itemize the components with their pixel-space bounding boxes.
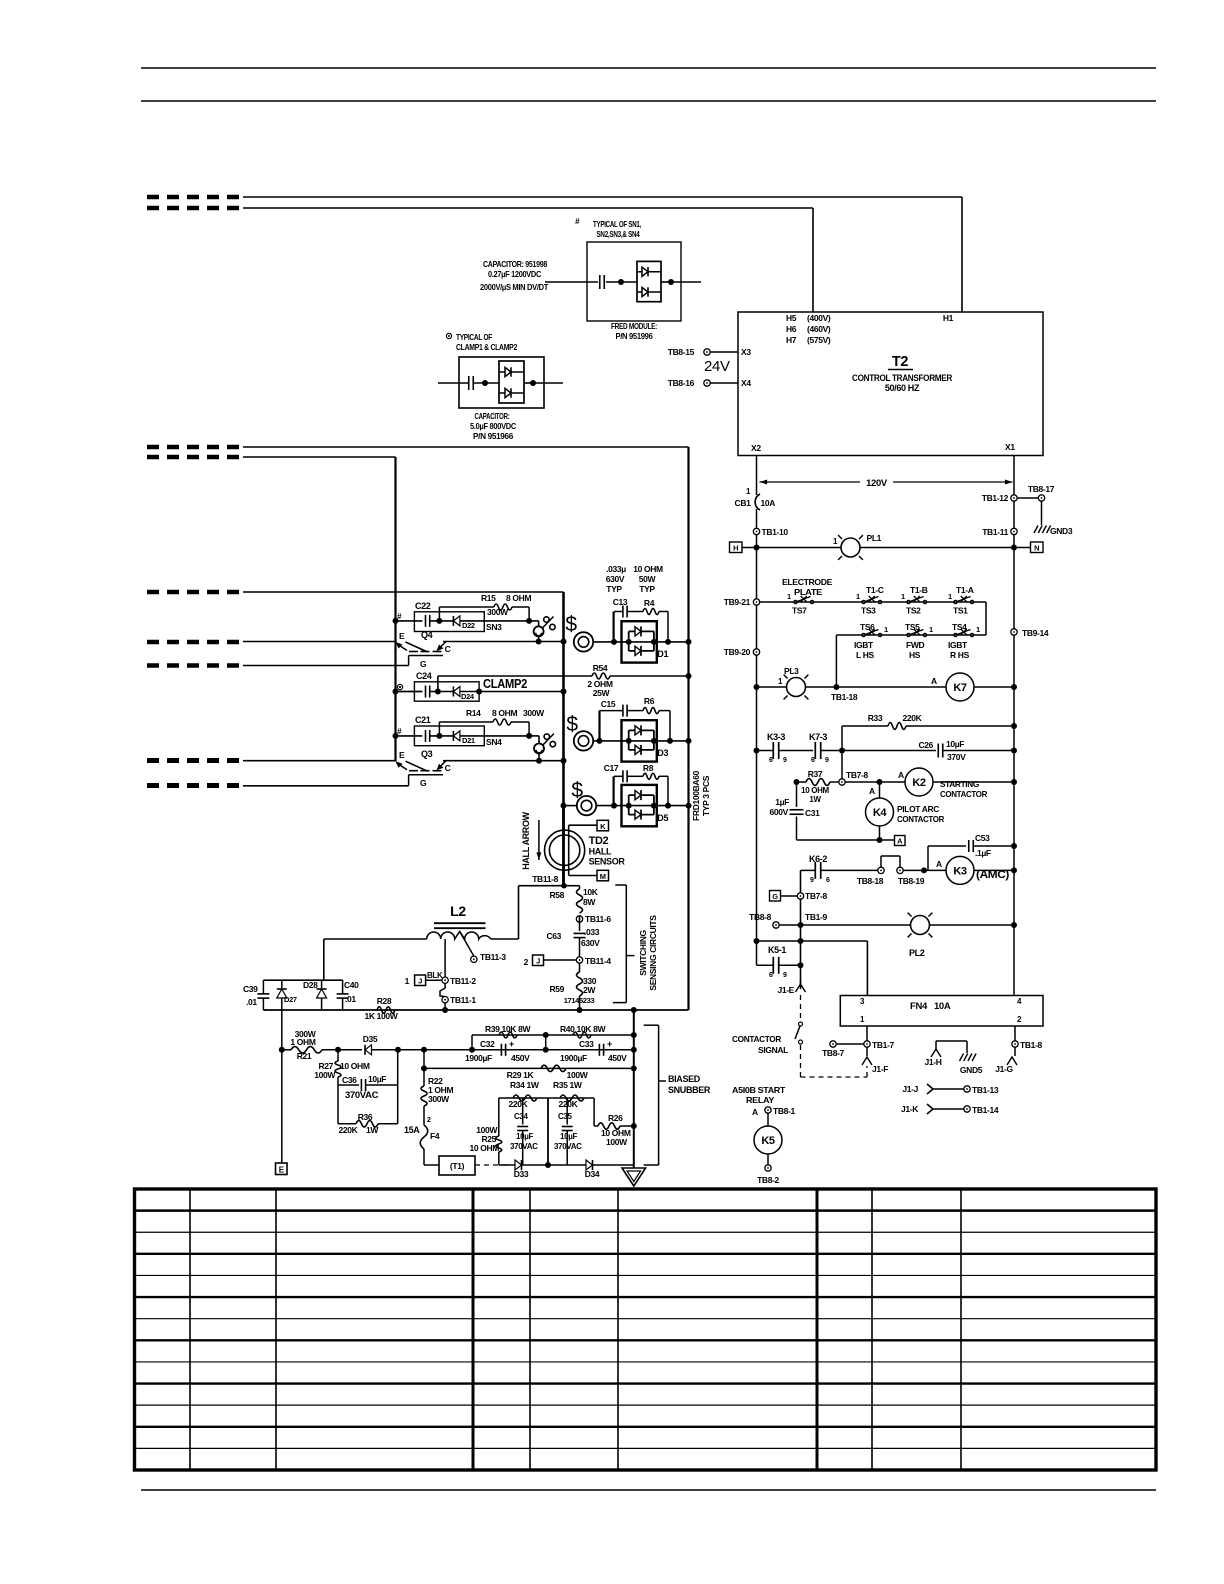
- wire lead9 run: [243, 785, 409, 787]
- switch contact signal: [799, 1022, 803, 1026]
- parts table outer frame: [135, 1189, 1157, 1470]
- svg-text:C63: C63: [546, 931, 561, 941]
- wire bus to CT3: [564, 805, 577, 807]
- wire TB11-1 to bus: [444, 1003, 446, 1010]
- svg-text:600V: 600V: [770, 807, 789, 817]
- wire TB8-8 row: [779, 924, 911, 926]
- svg-text:FN4: FN4: [910, 1001, 928, 1012]
- svg-text:FRED MODULE:: FRED MODULE:: [611, 321, 657, 331]
- terminal TB9-14: [1011, 629, 1017, 635]
- svg-text:2W: 2W: [583, 985, 596, 995]
- wire lead6 run: [243, 641, 396, 643]
- wire dashed lead 3 (to diode bus): [147, 445, 245, 450]
- svg-text:SNUBBER: SNUBBER: [668, 1085, 711, 1095]
- svg-text:24V: 24V: [704, 358, 730, 375]
- ground main: [622, 1168, 646, 1186]
- svg-text:TB8-15: TB8-15: [668, 347, 695, 357]
- wire bus right diode column: [687, 447, 689, 1010]
- svg-text:1K 100W: 1K 100W: [365, 1011, 399, 1021]
- svg-text:CONTACTOR: CONTACTOR: [940, 789, 987, 799]
- wire K4 leads: [879, 782, 881, 798]
- wire dashed lead 6 (Q4 emitter): [147, 640, 245, 645]
- svg-text:TYP: TYP: [606, 584, 622, 594]
- svg-text:$: $: [566, 713, 578, 736]
- svg-text:9: 9: [810, 877, 814, 884]
- wire lead2 run: [243, 207, 813, 209]
- svg-text:C53: C53: [975, 833, 990, 843]
- diode D21: [452, 731, 454, 741]
- wire H row: [742, 547, 841, 549]
- wire C21 out: [460, 735, 529, 737]
- svg-text:450V: 450V: [511, 1053, 530, 1063]
- wire C31 branch top: [796, 782, 798, 807]
- svg-text:TB11-1: TB11-1: [450, 995, 476, 1005]
- svg-text:630V: 630V: [606, 574, 625, 584]
- wire lead3 run: [243, 446, 689, 448]
- svg-text:10 OHM: 10 OHM: [469, 1143, 499, 1153]
- transistor Q4 gate: [409, 655, 443, 657]
- svg-text:1 OHM: 1 OHM: [290, 1037, 315, 1047]
- svg-text:HS: HS: [909, 650, 921, 660]
- svg-text:TB11-4: TB11-4: [585, 956, 611, 966]
- diode module D1: [622, 621, 657, 662]
- svg-text:R28: R28: [377, 996, 392, 1006]
- svg-text:IGBT: IGBT: [854, 640, 874, 650]
- wire lead1 drop to H1: [961, 197, 963, 312]
- svg-text:(400V): (400V): [807, 313, 831, 323]
- diode fred bottom: [637, 291, 661, 293]
- resistor R15 loop: [438, 607, 440, 621]
- current transformer CT2: [574, 731, 593, 750]
- wire TB11-8 to R58: [564, 885, 580, 887]
- svg-text:R35 1W: R35 1W: [553, 1080, 583, 1090]
- svg-text:1: 1: [929, 625, 933, 634]
- hall arrow: [538, 820, 540, 860]
- svg-text:2: 2: [524, 957, 529, 967]
- svg-text:370V: 370V: [947, 752, 966, 762]
- svg-text:.033µ: .033µ: [606, 564, 626, 574]
- wire C63-TB11-4: [579, 938, 581, 957]
- svg-text:C33: C33: [579, 1039, 594, 1049]
- svg-text:J1-F: J1-F: [872, 1064, 888, 1074]
- svg-text:C17: C17: [604, 763, 619, 773]
- ground GND3: [1034, 526, 1038, 534]
- svg-text:6: 6: [811, 757, 815, 764]
- FRED module box: [587, 242, 681, 321]
- wire L2 left lead: [324, 938, 427, 940]
- svg-text:D22: D22: [462, 621, 475, 630]
- diode D27: [281, 980, 283, 988]
- clamp module box: [459, 357, 544, 408]
- svg-text:TYPICAL OF SN1,: TYPICAL OF SN1,: [593, 219, 641, 229]
- svg-text:TYP: TYP: [639, 584, 655, 594]
- svg-text:GND5: GND5: [960, 1065, 983, 1075]
- svg-text:1: 1: [948, 592, 952, 601]
- wire dashed lead 9 (Q3 gate): [147, 783, 245, 788]
- FRED capacitor: [599, 275, 601, 289]
- svg-text:R54: R54: [593, 663, 608, 673]
- wire FN4 pin2 down: [1014, 1026, 1016, 1056]
- capacitor C21: [425, 730, 427, 742]
- svg-text:SIGNAL: SIGNAL: [758, 1045, 788, 1055]
- svg-text:RELAY: RELAY: [746, 1095, 775, 1105]
- wire drop to FN4 pin3: [866, 941, 868, 996]
- wire E column: [281, 1050, 283, 1163]
- svg-text:TB7-8: TB7-8: [805, 891, 827, 901]
- svg-text:X3: X3: [741, 347, 751, 357]
- svg-text:IGBT: IGBT: [948, 640, 968, 650]
- svg-text:G: G: [420, 659, 427, 669]
- lamp PL2: [911, 916, 930, 935]
- svg-text:SENSING CIRCUITS: SENSING CIRCUITS: [648, 915, 658, 991]
- wire y941 row: [757, 940, 868, 942]
- svg-text:T1-A: T1-A: [956, 585, 974, 595]
- wire dashed contactor signal: [800, 995, 802, 1020]
- transistor Q3 gate: [409, 774, 443, 776]
- wire dashed contactor signal 2: [800, 1045, 802, 1077]
- svg-text:TB11-6: TB11-6: [585, 914, 611, 924]
- svg-text:C34: C34: [514, 1112, 529, 1121]
- clamp typical label: [446, 333, 451, 338]
- wire K6-2 row drop: [800, 870, 802, 989]
- svg-text:R58: R58: [549, 890, 564, 900]
- svg-text:PL1: PL1: [867, 533, 882, 543]
- capacitor C22: [425, 615, 427, 627]
- wire R54 tap: [437, 676, 439, 692]
- snubber loops C33 R40: [546, 1034, 634, 1036]
- wire lead5 run: [243, 591, 564, 593]
- svg-text:T2: T2: [892, 354, 909, 370]
- svg-text:C31: C31: [805, 808, 820, 818]
- svg-text:D1: D1: [657, 649, 668, 659]
- svg-text:J1-H: J1-H: [924, 1057, 941, 1067]
- svg-text:J1-G: J1-G: [995, 1064, 1013, 1074]
- lamp PL1: [841, 538, 860, 557]
- svg-text:H6: H6: [786, 324, 797, 334]
- terminal TB11-6: [576, 916, 582, 922]
- snubber C13 R4 loop: [612, 612, 614, 642]
- svg-text:TS7: TS7: [792, 606, 807, 616]
- parts table columns: [189, 1189, 191, 1470]
- snubber loops C32 R39: [472, 1034, 546, 1036]
- terminal TB7-8 upper: [839, 779, 845, 785]
- wire lead8 run: [243, 760, 396, 762]
- svg-text:50W: 50W: [639, 574, 657, 584]
- svg-text:TS1: TS1: [953, 606, 968, 616]
- wire R29 row: [424, 1067, 634, 1069]
- wire G to TB7-8: [781, 895, 798, 897]
- wire C22 row: [396, 620, 423, 622]
- svg-text:H: H: [733, 544, 738, 553]
- terminal TB8-7: [830, 1041, 836, 1047]
- svg-text:10A: 10A: [761, 498, 776, 508]
- svg-text:J: J: [418, 977, 422, 986]
- wire C36 right side: [397, 1050, 399, 1124]
- svg-text:A: A: [931, 676, 937, 686]
- svg-text:N: N: [1034, 544, 1039, 553]
- wire TS row1 to row2: [985, 602, 987, 635]
- svg-text:GND3: GND3: [1050, 526, 1073, 536]
- wire C24 out: [460, 691, 564, 693]
- svg-text:TB1-13: TB1-13: [972, 1085, 999, 1095]
- svg-text:K7-3: K7-3: [809, 732, 827, 742]
- wire FN4 pin1 down: [866, 1026, 868, 1056]
- wire R33 drop: [841, 726, 843, 751]
- wire D35 to C32 row: [424, 1049, 634, 1051]
- svg-text:R37: R37: [808, 769, 823, 779]
- svg-text:R34 1W: R34 1W: [510, 1080, 540, 1090]
- wire L2 tap to TB11-3: [460, 932, 474, 957]
- transformer T2 box: [738, 312, 1043, 456]
- snubber C15 R6 loop: [598, 711, 600, 741]
- svg-text:5.0µF 800VDC: 5.0µF 800VDC: [470, 421, 516, 431]
- jumper TB8-18 TB8-19: [880, 856, 882, 867]
- svg-text:TB8-17: TB8-17: [1028, 484, 1055, 494]
- wire L2 right lead: [491, 938, 519, 940]
- svg-text:L2: L2: [450, 903, 466, 919]
- wire TB8-1 to K5: [767, 1113, 769, 1126]
- svg-text:10 OHM: 10 OHM: [801, 786, 829, 795]
- wire bus IGBT emitter: [394, 457, 396, 761]
- svg-text:220K: 220K: [903, 713, 923, 723]
- wire K6-2 to TB8-18: [821, 869, 878, 871]
- wire main bottom bus y1010: [263, 1009, 688, 1011]
- wire C21 row: [396, 735, 423, 737]
- wire Q3 collector: [443, 760, 564, 762]
- wire clamp cap to node: [473, 382, 499, 384]
- svg-text:630V: 630V: [581, 938, 600, 948]
- transformer T1 box: [439, 1156, 475, 1175]
- svg-text:10µF: 10µF: [560, 1132, 577, 1141]
- bracket switching circuits: [615, 884, 626, 886]
- svg-text:CONTROL TRANSFORMER: CONTROL TRANSFORMER: [852, 373, 953, 383]
- wire lead4 run: [243, 456, 396, 458]
- wire dashed lead 2 (to H5): [147, 206, 245, 211]
- svg-text:8 OHM: 8 OHM: [506, 593, 531, 603]
- wire lead1 run: [243, 196, 962, 198]
- svg-text:TYPICAL OF: TYPICAL OF: [456, 332, 492, 342]
- svg-text:K5-1: K5-1: [768, 945, 786, 955]
- wire left control bus: [756, 509, 758, 965]
- svg-text:PLATE: PLATE: [794, 587, 823, 597]
- svg-text:T1-C: T1-C: [866, 585, 884, 595]
- wire CT3 to D5: [596, 805, 688, 807]
- svg-text:100W: 100W: [606, 1137, 628, 1147]
- wire K2 to bus: [933, 781, 1014, 783]
- wire C53 drop: [927, 846, 929, 870]
- diode D24: [452, 687, 454, 697]
- wire dashed lead 5 (to collector bus): [147, 590, 245, 595]
- svg-text:PILOT ARC: PILOT ARC: [897, 804, 939, 814]
- svg-text:F4: F4: [430, 1131, 440, 1141]
- svg-text:6: 6: [769, 757, 773, 764]
- svg-text:2: 2: [427, 1117, 431, 1124]
- svg-text:C40: C40: [344, 980, 359, 990]
- svg-text:(T1): (T1): [450, 1161, 465, 1171]
- terminal TB8-19: [897, 867, 903, 873]
- svg-text:K3-3: K3-3: [767, 732, 785, 742]
- capacitor C31: [790, 809, 804, 811]
- svg-text:C22: C22: [415, 601, 431, 611]
- svg-text:R15: R15: [481, 593, 496, 603]
- svg-text:1: 1: [405, 976, 410, 986]
- wire K5 to TB8-2: [767, 1154, 769, 1165]
- wire TB11-2 to TB11-1 jog: [440, 983, 445, 996]
- svg-text:1W: 1W: [809, 795, 821, 804]
- svg-text:TB9-21: TB9-21: [724, 597, 751, 607]
- svg-text:G: G: [772, 892, 778, 901]
- svg-text:R6: R6: [644, 696, 655, 706]
- wire contacts to C26: [821, 750, 936, 752]
- wire dashed lead 8 (Q3 emitter): [147, 758, 245, 763]
- svg-text:D35: D35: [363, 1034, 378, 1044]
- svg-text:TS2: TS2: [906, 606, 921, 616]
- node K box: [597, 820, 609, 831]
- wire D27 column down: [281, 1010, 283, 1050]
- svg-text:6: 6: [826, 877, 830, 884]
- svg-text:R HS: R HS: [950, 650, 970, 660]
- svg-text:SENSOR: SENSOR: [589, 857, 626, 867]
- wire bus collector column: [562, 592, 565, 886]
- connector J1-G: [1007, 1057, 1017, 1065]
- node fred left: [618, 279, 624, 285]
- svg-text:CAPACITOR: 951998: CAPACITOR: 951998: [483, 259, 548, 269]
- svg-text:FWD: FWD: [906, 640, 925, 650]
- node clamp left: [482, 380, 488, 386]
- node H box: [730, 542, 743, 553]
- diode D33: [499, 1164, 515, 1166]
- svg-text:C: C: [445, 644, 451, 654]
- connector J1-H: [931, 1049, 941, 1057]
- node M box: [597, 870, 609, 881]
- svg-text:+: +: [607, 1039, 612, 1049]
- wire CT1 to D1: [593, 641, 688, 643]
- wire K3 to bus: [974, 869, 1014, 871]
- svg-text:100W: 100W: [567, 1070, 589, 1080]
- wire C21 node: [430, 735, 454, 737]
- svg-text:J1-E: J1-E: [777, 985, 794, 995]
- wire right control bus: [1013, 456, 1015, 996]
- svg-text:370VAC: 370VAC: [345, 1090, 379, 1101]
- wire fred cap to node: [606, 281, 637, 283]
- resistor R29: [541, 1065, 566, 1071]
- ground GND5: [960, 1054, 964, 1062]
- svg-text:TB1-12: TB1-12: [982, 493, 1009, 503]
- svg-text:M: M: [600, 872, 606, 881]
- symbol circledot C24: [397, 684, 402, 689]
- svg-text:D3: D3: [657, 748, 668, 758]
- svg-text:9: 9: [783, 972, 787, 979]
- snubber C17 R8 loop: [612, 776, 614, 805]
- node N box: [1031, 542, 1044, 553]
- svg-text:A: A: [898, 770, 904, 780]
- svg-text:TB8-8: TB8-8: [749, 912, 771, 922]
- wire TS row2 drop: [835, 635, 837, 687]
- svg-text:T1-B: T1-B: [910, 585, 928, 595]
- wire PL2 to bus: [930, 924, 1015, 926]
- svg-text:10 OHM: 10 OHM: [633, 564, 663, 574]
- current transformer CT1: [574, 632, 593, 651]
- diode fred top: [637, 271, 661, 273]
- svg-text:1W: 1W: [366, 1125, 379, 1135]
- wire C53 to bus: [973, 845, 1014, 847]
- wire C31 bottom: [796, 817, 798, 841]
- wire CT2 to D3: [593, 740, 688, 742]
- svg-text:1: 1: [976, 625, 980, 634]
- svg-text:TB1-10: TB1-10: [762, 527, 789, 537]
- breaker CB1: [755, 494, 760, 510]
- svg-text:CB1: CB1: [735, 498, 752, 508]
- svg-text:.1µF: .1µF: [975, 848, 991, 858]
- svg-text:10µF: 10µF: [368, 1074, 386, 1084]
- terminal TB11-1: [442, 997, 448, 1003]
- svg-text:R21: R21: [297, 1051, 312, 1061]
- svg-text:TB11-3: TB11-3: [480, 952, 506, 962]
- svg-text:0.27µF 1200VDC: 0.27µF 1200VDC: [488, 269, 541, 279]
- svg-text:K7: K7: [953, 682, 967, 694]
- svg-text:TYP 3 PCS: TYP 3 PCS: [701, 775, 711, 816]
- svg-text:BIASED: BIASED: [668, 1074, 701, 1084]
- fuse F4: [423, 1106, 425, 1125]
- capacitor C63: [574, 932, 586, 934]
- wire lead2 drop to H5: [812, 208, 814, 312]
- svg-text:6: 6: [769, 972, 773, 979]
- diode D22: [452, 616, 454, 626]
- svg-text:D21: D21: [462, 736, 475, 745]
- resistor R58: [579, 886, 581, 889]
- svg-text:HALL ARROW: HALL ARROW: [521, 811, 531, 869]
- svg-text:X2: X2: [751, 443, 761, 453]
- svg-text:J1-K: J1-K: [901, 1104, 919, 1114]
- svg-text:CAPACITOR:: CAPACITOR:: [475, 411, 510, 421]
- svg-text:X1: X1: [1005, 442, 1015, 452]
- svg-text:C26: C26: [918, 740, 933, 750]
- svg-text:R4: R4: [644, 598, 655, 608]
- node fred right: [661, 281, 671, 283]
- svg-text:H1: H1: [943, 313, 954, 323]
- svg-text:(575V): (575V): [807, 335, 831, 345]
- wire R33 row: [842, 725, 888, 727]
- terminal TB1-10: [753, 528, 759, 534]
- svg-text:D24: D24: [461, 692, 475, 701]
- svg-text:25W: 25W: [593, 688, 611, 698]
- clamp capacitor: [468, 376, 470, 390]
- svg-text:HALL: HALL: [589, 847, 612, 857]
- svg-text:A: A: [869, 786, 875, 796]
- svg-text:R33: R33: [868, 713, 883, 723]
- wire contact row: [757, 750, 773, 752]
- svg-text:TD2: TD2: [589, 835, 609, 847]
- svg-text:D33: D33: [514, 1169, 529, 1179]
- svg-text:1: 1: [787, 592, 791, 601]
- diode module D3: [622, 720, 657, 761]
- svg-text:SN4: SN4: [486, 737, 502, 747]
- wire C34 C35 mid column: [547, 1098, 549, 1165]
- svg-text:K4: K4: [873, 807, 888, 819]
- clamp right lead: [533, 382, 563, 384]
- svg-text:G: G: [420, 778, 427, 788]
- svg-text:10µF: 10µF: [946, 739, 964, 749]
- svg-text:220K: 220K: [559, 1099, 579, 1109]
- terminal TB1-7: [864, 1041, 870, 1047]
- svg-text:D27: D27: [284, 995, 297, 1004]
- wire C22 node: [430, 620, 454, 622]
- wire K7 to bus: [974, 686, 1014, 688]
- svg-text:TB1-8: TB1-8: [1020, 1040, 1042, 1050]
- clamp inner diode box: [499, 361, 524, 403]
- svg-text:C15: C15: [601, 699, 616, 709]
- svg-text:100W: 100W: [314, 1070, 336, 1080]
